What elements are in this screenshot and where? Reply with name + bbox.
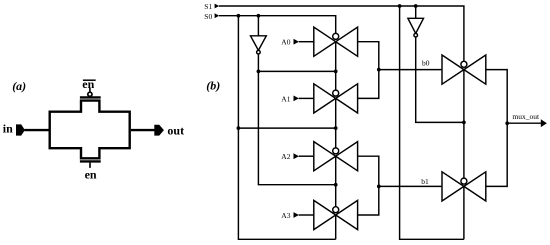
- node A3 label: [281, 211, 290, 220]
- svg-text:A0: A0: [281, 38, 290, 47]
- NMOS gate bar: [80, 160, 101, 162]
- wire A2 output: [358, 156, 379, 186]
- svg-text:S0: S0: [204, 12, 212, 21]
- wire mux_out: [507, 122, 541, 124]
- node s0_bar junction B: [334, 70, 338, 74]
- wire en_bar stub: [89, 88, 91, 92]
- PMOS bubble: [88, 92, 92, 96]
- node inverter2 tap junction: [414, 4, 418, 8]
- S1 arrow: [215, 4, 220, 9]
- wire control column TG-A1 to TG-A2: [335, 98, 337, 147]
- transmission gate TG-A1: [314, 84, 358, 113]
- S0 arrow: [215, 13, 220, 18]
- wire S0 raw column: [238, 16, 335, 240]
- svg-text:mux_out: mux_out: [512, 112, 540, 121]
- node S1 tap junction: [398, 4, 402, 8]
- wire s0_bar column: [258, 54, 335, 185]
- svg-text:en: en: [82, 77, 94, 91]
- node S1 label: [204, 2, 212, 11]
- PMOS gate bar: [80, 96, 101, 98]
- node S0 tap junction: [237, 14, 241, 18]
- wire S1 rail: [219, 6, 464, 61]
- node b1 label: [421, 177, 429, 186]
- wire b1 output: [486, 123, 507, 186]
- wire S0 rail: [219, 16, 336, 34]
- wire A1 output: [358, 70, 379, 99]
- svg-text:S1: S1: [204, 2, 212, 11]
- wire inverter1 input: [257, 16, 259, 36]
- node b0 junction: [377, 68, 381, 72]
- wire S0 tap row: [238, 127, 335, 129]
- node mux_out label: [512, 112, 540, 121]
- node S0 tap junction A: [237, 126, 241, 130]
- wire A2 input: [299, 155, 314, 157]
- wire b0 row: [379, 69, 442, 71]
- node S0 label: [204, 12, 212, 21]
- svg-text:(a): (a): [12, 79, 26, 93]
- wire control column TG-A2 to TG-A3: [335, 156, 337, 207]
- transmission gate TG body: [50, 101, 130, 159]
- wire inverter2 input: [415, 6, 417, 18]
- transmission gate TG-A3: [314, 200, 358, 229]
- output arrow: [154, 125, 164, 136]
- transmission gate TG-b0: [442, 55, 486, 84]
- A1 arrow: [294, 96, 299, 102]
- wire A0 input: [299, 41, 314, 43]
- node A2 label: [281, 152, 290, 161]
- svg-text:(b): (b): [206, 78, 220, 92]
- node en_bar label: [82, 77, 95, 91]
- wire control column TG-A3 to rail: [335, 215, 337, 239]
- wire en stub: [89, 163, 91, 168]
- wire control column TG-A0 to TG-A1: [335, 42, 337, 90]
- node A1 label: [281, 94, 290, 103]
- inverter U2 (S1): [408, 18, 424, 37]
- node en label: [85, 168, 97, 182]
- node out label: [167, 124, 184, 138]
- wire s1_bar route: [416, 37, 464, 122]
- node s0_bar junction A: [257, 70, 261, 74]
- A0 arrow: [294, 39, 299, 45]
- wire A1 input: [299, 97, 314, 99]
- svg-text:out: out: [167, 124, 184, 138]
- node inverter1 tap junction: [257, 14, 261, 18]
- svg-text:in: in: [3, 122, 13, 136]
- wire b0 output: [486, 70, 507, 124]
- label (a): [12, 79, 26, 93]
- svg-text:en: en: [85, 168, 97, 182]
- wire control column TG-b1 to rail: [463, 186, 465, 239]
- mux_out arrow: [541, 119, 547, 127]
- wire b1 row: [379, 185, 442, 187]
- wire A3 output: [358, 186, 379, 215]
- label (b): [206, 78, 220, 92]
- wire input: [25, 129, 49, 131]
- node A0 label: [281, 38, 290, 47]
- svg-text:b0: b0: [422, 58, 430, 67]
- wire s0_bar row1: [258, 70, 335, 72]
- A2 arrow: [294, 153, 299, 159]
- A3 arrow: [294, 212, 299, 218]
- inverter U1 (S0): [251, 36, 267, 54]
- wire control column TG-b0 to TG-b1: [463, 70, 465, 179]
- transmission gate TG-b1: [442, 172, 486, 201]
- node mux_out junction: [505, 121, 509, 125]
- wire output: [131, 129, 155, 131]
- node s1_bar junction: [462, 121, 466, 125]
- svg-text:b1: b1: [421, 177, 429, 186]
- input arrow: [16, 124, 25, 135]
- svg-text:A2: A2: [281, 152, 290, 161]
- wire S1 raw column: [400, 6, 464, 239]
- wire A3 input: [299, 214, 314, 216]
- transmission gate TG-A0: [314, 27, 358, 56]
- svg-text:A3: A3: [281, 211, 290, 220]
- node S0 tap junction B: [334, 126, 338, 130]
- node b0 label: [422, 58, 430, 67]
- node in label: [3, 122, 13, 136]
- node s0_bar junction C: [334, 183, 338, 187]
- wire A0 output: [358, 42, 379, 70]
- node b1 junction: [377, 185, 381, 189]
- svg-text:A1: A1: [281, 94, 290, 103]
- transmission gate TG-A2: [314, 142, 358, 171]
